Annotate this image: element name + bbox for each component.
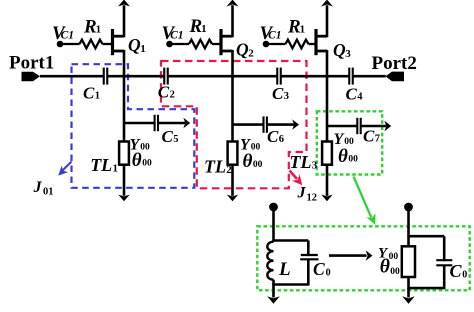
svg-text:TL: TL [290, 152, 312, 172]
svg-text:1: 1 [201, 23, 207, 35]
svg-text:θ: θ [132, 150, 142, 171]
svg-text:Q: Q [333, 40, 346, 60]
svg-text:J: J [33, 179, 43, 196]
svg-text:1: 1 [96, 24, 102, 36]
svg-text:1: 1 [140, 43, 146, 55]
svg-text:C: C [346, 84, 358, 103]
svg-text:0: 0 [462, 270, 467, 281]
svg-text:4: 4 [357, 91, 363, 102]
svg-text:00: 00 [140, 143, 150, 153]
svg-text:C: C [158, 83, 170, 102]
svg-text:C: C [267, 127, 279, 146]
svg-text:Q: Q [128, 35, 141, 55]
svg-text:6: 6 [279, 134, 284, 145]
svg-text:J: J [297, 185, 307, 202]
svg-text:00: 00 [390, 267, 400, 277]
svg-text:3: 3 [312, 160, 318, 172]
svg-text:TL: TL [90, 155, 112, 175]
svg-text:00: 00 [253, 160, 263, 170]
svg-text:00: 00 [389, 252, 399, 262]
svg-text:C: C [162, 127, 174, 146]
svg-text:1: 1 [95, 90, 100, 101]
svg-text:00: 00 [142, 159, 152, 169]
svg-text:C1: C1 [268, 29, 281, 41]
svg-text:2: 2 [170, 90, 175, 101]
svg-text:Q: Q [236, 40, 249, 60]
svg-text:12: 12 [307, 193, 318, 204]
svg-text:01: 01 [43, 186, 54, 197]
svg-text:7: 7 [375, 134, 380, 145]
svg-text:3: 3 [345, 48, 351, 60]
svg-text:00: 00 [348, 155, 358, 165]
svg-text:C: C [272, 84, 284, 103]
svg-text:C1: C1 [170, 29, 183, 41]
svg-text:3: 3 [284, 91, 289, 102]
svg-text:0: 0 [326, 268, 331, 279]
svg-text:C1: C1 [61, 29, 74, 41]
svg-text:θ: θ [338, 146, 348, 167]
svg-text:5: 5 [173, 134, 178, 145]
svg-text:2: 2 [226, 164, 232, 176]
svg-text:C: C [363, 127, 375, 146]
svg-text:1: 1 [113, 163, 119, 175]
svg-text:θ: θ [380, 256, 390, 277]
svg-text:C: C [450, 261, 463, 281]
svg-text:θ: θ [243, 151, 253, 172]
svg-text:1: 1 [300, 24, 306, 36]
svg-text:C: C [83, 83, 95, 102]
svg-text:L: L [278, 259, 291, 280]
svg-text:Port1: Port1 [9, 53, 54, 74]
svg-text:C: C [313, 259, 325, 279]
svg-text:2: 2 [248, 48, 254, 60]
svg-text:Port2: Port2 [372, 53, 417, 74]
svg-text:TL: TL [204, 156, 226, 176]
